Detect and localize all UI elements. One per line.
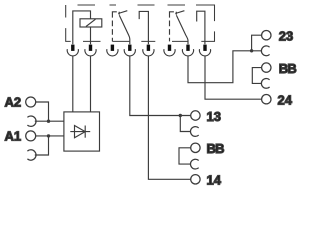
wire A1 to box <box>35 136 64 155</box>
contact 1 fixed arm to terminal 5 <box>139 11 148 44</box>
wire terminal 2 to input box <box>90 56 92 112</box>
terminal 3 plug pin and socket <box>107 45 118 56</box>
socket circle A2 <box>26 97 36 107</box>
svg-text:BB: BB <box>207 141 225 156</box>
left edge with bottom-left corner <box>66 5 71 41</box>
junction 23 <box>250 49 253 52</box>
socket circle BB upper <box>262 63 271 72</box>
svg-text:24: 24 <box>278 93 293 108</box>
wire terminal 5 to 14 <box>148 56 190 180</box>
contact 2 actuator dashed link <box>170 12 177 42</box>
svg-text:23: 23 <box>279 29 293 44</box>
socket hook 23 <box>261 46 269 56</box>
bracket 23 <box>252 35 262 51</box>
terminal 5 plug pin and socket <box>143 45 154 56</box>
svg-text:A2: A2 <box>5 95 22 110</box>
relay enclosure dashed box <box>66 5 215 41</box>
contact 1 fixed contact stub <box>118 11 127 14</box>
wire terminal 1 to input box <box>72 56 74 112</box>
wire terminal 4 to 13 <box>130 56 181 116</box>
socket hook A1 <box>27 150 36 160</box>
socket hook A2 <box>27 116 36 126</box>
contact 2 fixed arm to terminal 8 <box>197 11 205 44</box>
terminal 4 plug pin and socket <box>124 45 135 56</box>
junction A1 <box>47 134 50 137</box>
wire coil bottom to terminal 2 <box>90 27 92 44</box>
terminal 2 plug pin and socket <box>85 45 96 56</box>
socket circle BB lower <box>191 143 200 152</box>
wire A2 to box <box>35 102 64 121</box>
socket circle 24 <box>262 95 271 104</box>
terminal 8 plug pin and socket <box>199 45 210 56</box>
wire coil top feed from terminal 1 <box>73 11 91 44</box>
socket hook 13 <box>190 127 198 137</box>
bottom edge with bottom-right corner <box>83 31 215 41</box>
svg-text:A1: A1 <box>5 129 22 144</box>
svg-text:13: 13 <box>207 109 221 124</box>
wire terminal 7 to 23 <box>188 51 252 83</box>
contact 2 fixed contact stub <box>175 11 184 14</box>
svg-text:14: 14 <box>207 173 222 188</box>
svg-text:BB: BB <box>279 61 297 76</box>
bracket BB lower <box>179 148 191 164</box>
terminal 6 plug pin and socket <box>164 45 175 56</box>
socket circle A1 <box>26 131 36 141</box>
bracket BB upper <box>252 68 261 84</box>
socket hook BB lower <box>190 159 198 169</box>
diode <box>70 126 90 138</box>
relay coil <box>80 19 102 27</box>
socket circle 23 <box>262 31 271 40</box>
contact 1 actuator dashed link <box>112 12 119 42</box>
terminal 7 plug pin and socket <box>182 45 193 56</box>
input box <box>64 112 100 151</box>
socket hook BB upper <box>261 79 269 89</box>
terminal 1 plug pin and socket <box>67 45 78 56</box>
bracket 13 <box>180 116 190 132</box>
wire terminal 8 to 24 <box>205 56 262 99</box>
junction A2 <box>47 120 50 123</box>
socket circle 14 <box>191 175 200 184</box>
contact 1 moving blade <box>119 15 130 44</box>
top edge with top-right corner <box>78 5 215 21</box>
junction 13 <box>179 114 182 117</box>
contact 2 moving blade <box>176 15 188 44</box>
socket circle 13 <box>191 111 200 120</box>
